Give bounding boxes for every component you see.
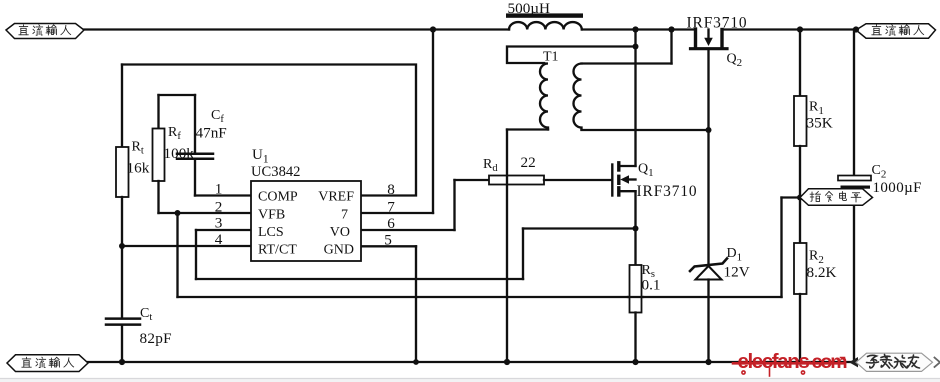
label C2	[872, 163, 887, 180]
label D1	[727, 246, 743, 263]
label pin number 3	[215, 215, 223, 232]
wire Cf bottom lead to pin1	[194, 159, 196, 196]
label Rd	[483, 157, 498, 174]
junction Ct / bottom rail	[119, 359, 125, 365]
label 1000µF	[873, 180, 922, 196]
label pin number 7	[387, 199, 395, 216]
wire Rt bottom lead	[121, 197, 123, 246]
svg-text:2: 2	[215, 199, 223, 216]
diode D1 zener cathode bar	[690, 259, 727, 272]
svg-text:16k: 16k	[127, 160, 150, 177]
junction top rail / R1	[797, 26, 803, 32]
label U1	[252, 147, 269, 165]
wire T1 primary bottom riser to ground rail	[506, 130, 508, 363]
junction top rail / C2 column	[853, 26, 859, 32]
transistor Q1 source stub	[620, 190, 636, 192]
wire Rf bottom lead to pin2	[157, 181, 159, 213]
svg-text:1000µF: 1000µF	[873, 180, 922, 196]
wire VFB riser down	[176, 213, 178, 297]
resistor Rt body	[116, 147, 129, 197]
junction D1 / bottom rail	[705, 359, 711, 365]
label pin number 2	[215, 199, 223, 216]
wire top rail right segment	[724, 28, 857, 30]
svg-text:1: 1	[215, 181, 223, 198]
svg-text:VREF: VREF	[318, 190, 354, 205]
resistor R2 body	[794, 243, 807, 294]
wire C2 bottom lead	[853, 189, 855, 362]
label pin name COMP	[258, 190, 298, 205]
wire pin6 VO run	[361, 229, 455, 231]
svg-text:Rf: Rf	[168, 125, 181, 142]
svg-text:35K: 35K	[807, 115, 833, 132]
svg-text:82pF: 82pF	[140, 330, 172, 347]
transistor Q1 channel segments	[617, 163, 620, 195]
wire bottom rail	[88, 361, 855, 363]
transformer T1 primary winding	[540, 64, 548, 130]
label 16k	[127, 160, 150, 177]
label pin name VFB	[258, 208, 285, 223]
svg-text:GND: GND	[324, 243, 354, 258]
wire pin7 VCC run	[361, 212, 433, 214]
junction top rail / Q1 drain column	[632, 26, 638, 32]
watermark small marks	[742, 358, 845, 377]
label pin name VO	[330, 225, 350, 240]
transformer T1 secondary winding	[574, 64, 582, 130]
wire T1 primary top bracket	[507, 47, 636, 64]
junction current sense / Q1 source column	[633, 226, 639, 232]
label 47nF	[196, 125, 227, 142]
capacitor C2 negative plate	[841, 186, 871, 189]
node flag DC input bottom-left 直流输入	[7, 355, 88, 372]
resistor Rs body	[630, 265, 642, 313]
wire Rs bottom lead	[634, 313, 636, 363]
label Cf	[211, 108, 224, 125]
wire top rail left segment	[84, 28, 509, 30]
label Rs	[642, 263, 655, 280]
label pin name LCS	[258, 225, 284, 240]
svg-text:22: 22	[521, 154, 536, 171]
wire feedback riser up	[780, 198, 782, 298]
wire Rt top lead	[121, 65, 123, 148]
svg-text:T1: T1	[543, 50, 559, 65]
wire T1 secondary bottom run	[582, 129, 709, 131]
svg-text:UC3842: UC3842	[251, 164, 300, 180]
wire Cf top lead	[194, 95, 196, 153]
wire Q1 drain column	[634, 30, 636, 167]
svg-text:D1: D1	[727, 246, 743, 263]
wire Rf top lead	[157, 95, 159, 129]
junction R2 / bottom rail	[797, 359, 803, 365]
wire pin5 GND riser to bottom rail	[415, 246, 417, 362]
svg-text:8: 8	[387, 181, 395, 198]
wire R1 top lead	[799, 30, 801, 97]
transistor Q1 body arrow	[620, 175, 635, 183]
svg-text:Q1: Q1	[638, 162, 654, 179]
junction Rt / pin4 / Ct node	[119, 243, 125, 249]
svg-text:RT/CT: RT/CT	[258, 243, 297, 258]
label pin name RT/CT	[258, 243, 297, 258]
label 0.1	[642, 277, 661, 294]
wire pin4 RT/CT	[122, 245, 251, 247]
wire pin7 VCC riser to top rail	[432, 30, 434, 214]
resistor Rd body	[489, 176, 544, 185]
transistor Q1 drain stub	[620, 165, 636, 167]
wire R2 bottom lead	[799, 294, 801, 362]
label 100k	[164, 145, 195, 162]
junction Rs / bottom rail	[632, 359, 638, 365]
svg-text:7: 7	[387, 199, 395, 216]
transistor Q2 source bar	[694, 30, 697, 48]
wire current sense run lower	[196, 278, 523, 280]
junction T1 primary top / drain column	[633, 44, 639, 50]
label 35K	[807, 115, 833, 132]
wire pin6 riser to Rd	[453, 180, 455, 230]
junction T1 secondary bottom / Q2 gate column	[706, 127, 712, 133]
svg-text:12V: 12V	[724, 264, 750, 281]
wire Rf-Cf top link	[159, 94, 196, 96]
label 22	[521, 154, 536, 171]
wire Ct top lead	[121, 246, 123, 318]
label pin number 4	[215, 231, 223, 248]
capacitor Ct plates	[106, 319, 140, 325]
svg-text:C2: C2	[872, 163, 887, 180]
svg-text:Rt: Rt	[132, 140, 144, 157]
node flag DC input top-right 直流输入	[856, 24, 936, 38]
wire Ct bottom lead	[121, 325, 123, 362]
wire pin5 GND run	[361, 245, 416, 247]
svg-text:elecfans: elecfans	[738, 350, 810, 373]
label pin name GND	[324, 243, 354, 258]
junction VFB node	[175, 210, 181, 216]
wire feedback run to divider	[178, 296, 782, 298]
inductor 500µH coil	[509, 22, 582, 29]
label pin number 1	[215, 181, 223, 198]
node watermark flag 电子发烧友	[856, 353, 940, 371]
label pin number 7 inside	[341, 208, 348, 223]
label 500µH	[508, 0, 551, 17]
transistor Q1 gate bar	[611, 165, 613, 196]
wire Q1 source down to Rs	[634, 191, 636, 265]
junction top rail / pin7 riser	[430, 26, 436, 32]
label pin name VREF	[318, 190, 354, 205]
svg-text:LCS: LCS	[258, 225, 284, 240]
junction top rail / T1 secondary riser	[668, 26, 674, 32]
transistor Q2 channel bar	[691, 47, 728, 50]
label pin number 6	[387, 215, 395, 232]
wire T1 secondary top run	[582, 62, 672, 64]
label Q1 IRF3710	[637, 183, 698, 200]
junction divider node	[797, 195, 803, 201]
capacitor C2 positive plate	[838, 176, 871, 181]
svg-text:VFB: VFB	[258, 208, 285, 223]
resistor Rf body	[153, 129, 165, 182]
watermark elecfans.com	[738, 350, 848, 373]
wire Q2 gate column down to zener	[707, 130, 709, 264]
svg-text:6: 6	[387, 215, 395, 232]
label Ct	[140, 306, 152, 323]
svg-text:Rd: Rd	[483, 157, 498, 174]
wire pin2 VFB	[159, 212, 252, 214]
wire pin3 drop riser	[195, 230, 197, 279]
wire C2 top lead	[853, 30, 855, 176]
label 82pF	[140, 330, 172, 347]
label Q2 IRF3710	[687, 15, 748, 32]
svg-text:3: 3	[215, 215, 223, 232]
wire VREF pin8 riser and top run to Rt	[122, 65, 416, 196]
label Rt	[132, 140, 144, 157]
page footer faint line	[0, 379, 940, 382]
svg-text:4: 4	[215, 231, 223, 248]
label pin number 5	[384, 232, 392, 249]
wire pin3 LCS	[196, 229, 251, 231]
wire feedback crossing redraw over Rs	[628, 296, 643, 298]
svg-text:Ct: Ct	[140, 306, 152, 323]
svg-text:Q2: Q2	[727, 52, 743, 69]
wire command-level stub	[782, 196, 801, 198]
svg-text:VO: VO	[330, 225, 350, 240]
wire current sense riser	[522, 229, 524, 280]
wire top rail middle segment	[582, 28, 694, 30]
watermark strikethrough line	[733, 362, 845, 365]
label Q1	[638, 162, 654, 179]
junction GND riser / bottom rail	[413, 359, 419, 365]
svg-text:5: 5	[384, 232, 392, 249]
junction T1 primary / bottom rail	[504, 359, 510, 365]
IC U1 UC3842 box	[251, 181, 361, 261]
wire current sense run upper	[523, 227, 636, 229]
label R2	[809, 249, 824, 266]
svg-text:Cf: Cf	[211, 108, 224, 125]
wire Rd left lead	[455, 179, 490, 181]
node flag command level 指令电平	[800, 189, 873, 206]
label 8.2K	[807, 264, 837, 281]
wire T1 primary bottom run	[507, 128, 548, 130]
svg-text:IRF3710: IRF3710	[687, 15, 748, 32]
wire D1 anode lead	[707, 280, 709, 363]
transistor Q2 body arrow	[704, 30, 713, 47]
capacitor Cf plates	[177, 154, 213, 159]
resistor R1 body	[794, 96, 807, 146]
svg-text:7: 7	[341, 208, 348, 223]
svg-text:COMP: COMP	[258, 190, 298, 205]
label Rf	[168, 125, 181, 142]
svg-text:500µH: 500µH	[508, 0, 551, 17]
svg-text:47nF: 47nF	[196, 125, 227, 142]
label Q2	[727, 52, 743, 69]
label T1	[543, 50, 559, 65]
svg-text:U1: U1	[252, 147, 269, 165]
wire Rd right lead to Q1 gate	[544, 179, 611, 181]
inductor 500µH core bar	[506, 13, 583, 17]
transistor Q2 drain bar	[720, 30, 723, 48]
label UC3842	[251, 164, 300, 180]
wire R1-R2 link	[799, 146, 801, 243]
wire T1 secondary riser to top rail	[670, 30, 672, 64]
junction bottom rail / C2 column with watermark flag arrow	[849, 357, 858, 367]
svg-text:IRF3710: IRF3710	[637, 183, 698, 200]
node flag DC input top-left 直流输入	[6, 24, 84, 39]
label R1	[809, 100, 824, 117]
wire Q2 gate lead down	[707, 50, 709, 130]
svg-text:0.1: 0.1	[642, 277, 661, 294]
wire pin1 COMP	[195, 194, 251, 196]
diode D1 anode triangle	[696, 266, 722, 280]
svg-text:8.2K: 8.2K	[807, 264, 837, 281]
label 12V	[724, 264, 750, 281]
label pin number 8	[387, 181, 395, 198]
